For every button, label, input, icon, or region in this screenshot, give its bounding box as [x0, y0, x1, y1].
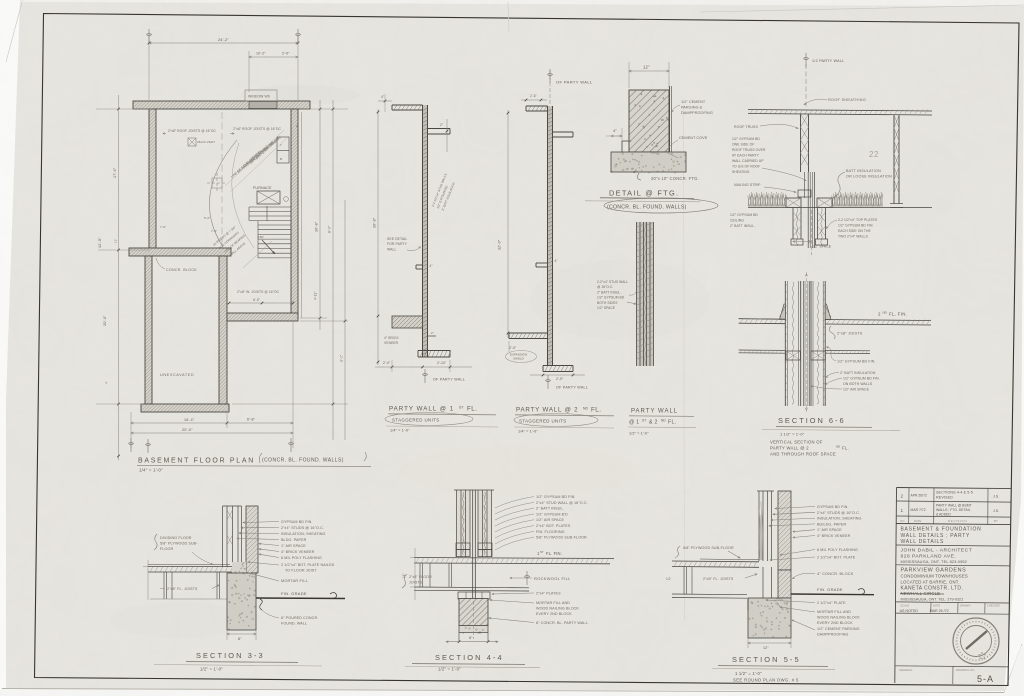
- fold crease right third: [684, 105, 685, 620]
- section6 lower right wall: [810, 281, 812, 406]
- plan top dim line 2: [249, 56, 298, 58]
- section3 mortar fill: [232, 562, 246, 573]
- party wall strip 2 wall: [548, 106, 553, 365]
- plan curved reference line: [209, 140, 237, 247]
- section4 ceiling below: [414, 586, 529, 589]
- section5 bottom dim: [748, 642, 791, 644]
- section5 joists: [683, 567, 685, 594]
- strip1 centreline bottom: [424, 369, 426, 383]
- stud wall below ceiling right: [816, 208, 818, 240]
- section4 right stud wall: [478, 490, 492, 557]
- section3 left dim: [147, 560, 149, 600]
- scale date row: [930, 602, 932, 612]
- centreline symbol right: [290, 438, 292, 452]
- strip1 top left dims: [378, 100, 392, 102]
- section4 left stud wall: [457, 490, 471, 557]
- furnace: [257, 191, 280, 204]
- dashed cross box in plan: [207, 182, 227, 184]
- strip2 top dims: [521, 99, 547, 101]
- paper smudges: [240, 85, 360, 105]
- section6 lower left wall: [784, 281, 786, 406]
- footing detail parging: [669, 86, 671, 152]
- section4 plates below: [458, 592, 490, 599]
- footing detail ledge: [622, 140, 629, 142]
- plan top wall lintel fill: [249, 102, 277, 109]
- plan right dim lines: [319, 100, 321, 330]
- closet boxes at right wall: [277, 137, 289, 163]
- section5 floor: [672, 560, 759, 563]
- section3 stud wall: [222, 506, 224, 567]
- plan bottom dim lines: [131, 422, 293, 424]
- stairs lower treads: [258, 224, 291, 226]
- plate flares at floor: [780, 304, 786, 320]
- footing size note: [637, 173, 641, 180]
- vent box: [188, 138, 196, 146]
- strip2 bottom dims: [530, 374, 585, 376]
- title block frame: [895, 488, 897, 684]
- joists label: [829, 326, 835, 339]
- footing dim 12: [629, 70, 669, 72]
- section6 lower centreline: [805, 272, 807, 412]
- party wall strip 3 double wall: [637, 222, 654, 366]
- section4 base plates: [456, 543, 470, 550]
- paper top edge line: [700, 5, 1024, 12]
- stud wall below ceiling left: [792, 208, 794, 240]
- centreline symbol left: [130, 438, 132, 452]
- section4 bottom dim: [446, 641, 498, 643]
- revision table: [896, 501, 1011, 502]
- strip1 right flange: [428, 128, 451, 130]
- left roof truss: [800, 114, 802, 173]
- lower stair diagonal note: [243, 241, 272, 268]
- strip2 mid tick: [536, 262, 548, 264]
- section4 left dim: [414, 548, 416, 600]
- paper top-left corner edge: [6, 2, 22, 62]
- section6 lower line left: [739, 349, 786, 351]
- section4 batt in stud walls: [463, 492, 464, 555]
- strip1 top flange left: [392, 104, 423, 106]
- footing detail footing: [611, 152, 686, 172]
- top plate boxes above ceiling: [786, 198, 801, 208]
- section6 lower centre gyp pair: [802, 281, 804, 406]
- bottom row of title block: [895, 666, 1008, 667]
- centreline above title left: [147, 439, 149, 453]
- section5 foundation: [748, 598, 791, 638]
- footing wall speckles: [630, 94, 668, 147]
- section4 centre gyp lines: [472, 490, 474, 599]
- section4 wall top ticks: [454, 489, 494, 491]
- right roof truss: [893, 115, 895, 204]
- strip1 small step right: [428, 335, 437, 337]
- section6 centreline top: [805, 64, 807, 109]
- centre space dashed: [810, 210, 812, 255]
- strip1 left dim: [377, 109, 379, 365]
- window box above top wall: [245, 90, 277, 101]
- section3 bottom dim: [227, 633, 256, 635]
- party wall gypsum pair: [807, 172, 809, 248]
- strip1 mid tick: [416, 264, 423, 266]
- blocking boxes below line: [786, 351, 801, 360]
- strip2 expansion note: [506, 351, 537, 363]
- section3 fin grade line: [256, 597, 345, 600]
- rockwool fill label: [526, 571, 528, 585]
- section6 floor left: [739, 318, 786, 321]
- strip2 top flange left: [526, 105, 548, 107]
- footing dim 4: [611, 135, 622, 137]
- section4 joists: [419, 564, 421, 588]
- strip2 centreline bottom: [547, 375, 549, 389]
- section6 floor right: [825, 320, 931, 321]
- seal: [953, 618, 999, 664]
- half inch space label: [793, 241, 811, 243]
- stairs upper treads: [249, 206, 291, 208]
- paper bottom edge: [2, 689, 1004, 693]
- plan interior partition line: [221, 112, 223, 248]
- section5 ceiling below: [672, 593, 747, 596]
- strip2 right flange: [553, 131, 574, 133]
- stair arrow: [262, 240, 275, 254]
- plan left dim line: [118, 95, 120, 460]
- section3 floor: [148, 566, 246, 568]
- section3 foundation wall: [227, 573, 256, 630]
- strip2 lower-left flange: [509, 332, 548, 334]
- ceiling line with batt: [748, 207, 932, 209]
- strip2 foot: [543, 365, 573, 367]
- section5 stud wall: [758, 491, 760, 561]
- section3 grade curl: [330, 593, 337, 599]
- strip1 foot: [418, 350, 450, 352]
- nailing strip block: [798, 190, 811, 197]
- strip2 left dim: [507, 110, 509, 338]
- section3 joists below floor: [163, 572, 165, 599]
- fold crease top center: [508, 2, 509, 32]
- party wall strip 1 wall: [423, 105, 428, 357]
- strip1 bottom dims: [375, 366, 472, 368]
- roof sheathing: [748, 110, 932, 112]
- section6 lower line right: [825, 349, 870, 351]
- stair diagonal guide line: [225, 130, 284, 186]
- section4 floor: [414, 558, 614, 559]
- strip2 centreline top: [549, 70, 551, 106]
- section5 fin grade: [791, 593, 874, 596]
- plan top dim line 24'-2: [149, 42, 298, 44]
